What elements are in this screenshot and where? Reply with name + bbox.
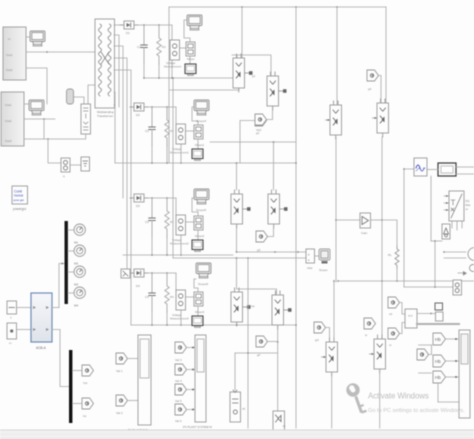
voltage measurement VM4 (176, 290, 186, 310)
svg-text:g2: g2 (256, 131, 260, 135)
wire SwA top from row2 (237, 142, 274, 190)
svg-text:D1: D1 (126, 31, 130, 35)
svg-text:nb: nb (389, 312, 393, 316)
svg-text:W1: W1 (74, 241, 79, 245)
svg-text:R4: R4 (170, 295, 174, 299)
wire row2 bottom rail (115, 162, 296, 164)
wire const to subsystem (17, 307, 32, 309)
PI controller block (230, 392, 241, 422)
svg-text:ACB-A: ACB-A (36, 346, 47, 350)
wire source B1 to Scope1 (26, 36, 30, 38)
wire B2 to Scope2 (24, 103, 29, 105)
thick wire to scope panel (417, 323, 459, 325)
from tag S2 gate (255, 114, 267, 125)
svg-text:powergui: powergui (13, 207, 26, 211)
wire tag to S4 top (379, 76, 382, 104)
svg-text:Gain: Gain (361, 231, 368, 235)
goto small dark block (435, 303, 443, 321)
wire transformer left lower port to RLC branch (88, 85, 95, 104)
svg-text:Val 4: Val 4 (175, 379, 182, 383)
hex tag HB2 (433, 355, 446, 367)
universal bridge U1 (449, 191, 464, 221)
scope Scope2 (29, 100, 44, 115)
wire row2 mid rail (210, 141, 296, 143)
wires tags to scope panel 2 (187, 348, 196, 410)
block ground G1 (81, 157, 90, 171)
wire S1 S2 top link (232, 55, 271, 76)
wire mean2 to scope (192, 107, 198, 125)
step block K3 (7, 323, 17, 339)
transformer T1 (95, 19, 115, 108)
wire row4 top rail (148, 272, 176, 274)
hex tag HB3 (433, 371, 446, 383)
switch SwA (231, 190, 251, 228)
svg-text:PV PLANT SYSTEM M: PV PLANT SYSTEM M (183, 425, 213, 429)
gauge W3 (74, 266, 85, 277)
wire bus tap to lower chopper pair (237, 258, 277, 295)
bridge bottom pins (452, 221, 462, 230)
diode D3 (130, 194, 148, 202)
wire tag E down to switch F (268, 341, 278, 343)
goto tag It (82, 398, 94, 409)
wire row3 branches bottom (152, 198, 176, 255)
resistor R3 (165, 198, 169, 237)
svg-text:gG: gG (315, 338, 320, 342)
gauge W4 (74, 287, 85, 298)
wire row1 top rail (138, 24, 172, 26)
from tag P3 (364, 318, 376, 329)
wires tags to relational (400, 303, 406, 334)
svg-text:Add: Add (307, 266, 313, 270)
wire SwC bottom to rail (236, 322, 238, 325)
wire loop bottom right (438, 401, 459, 403)
display Display1 (185, 64, 196, 76)
breaker B4 (121, 269, 130, 278)
wire PWM to saturation (427, 169, 438, 171)
svg-text:Activate Windows: Activate Windows (368, 392, 429, 401)
svg-text:RL: RL (388, 253, 392, 257)
wire loop left of PWM (430, 176, 432, 241)
from tag H (314, 322, 326, 333)
svg-text:Out1: Out1 (6, 53, 13, 57)
from tag V2 (116, 395, 128, 406)
mean block M2 (194, 125, 203, 139)
wire transformer port stubs and vertical bundle (114, 24, 124, 26)
svg-text:Mean2: Mean2 (195, 234, 205, 238)
svg-text:Mean3: Mean3 (195, 310, 205, 314)
scope Scope5 (194, 189, 209, 204)
resistor R1 (157, 25, 161, 64)
svg-text:D3: D3 (136, 204, 140, 208)
wire into PWM (404, 169, 414, 287)
svg-text:D2: D2 (136, 113, 140, 117)
goto tag Vt (82, 365, 94, 376)
svg-text:Out3: Out3 (5, 139, 12, 143)
wire top rail (169, 6, 386, 8)
switch SwG (322, 338, 338, 376)
svg-text:Val 3: Val 3 (175, 358, 182, 362)
wire tag H to switch G (326, 328, 330, 343)
wire bus down to switch G (333, 281, 335, 338)
series RLC branch block (81, 104, 91, 134)
wire down to measure pair (48, 139, 61, 163)
wire tag to SwB bottom (268, 228, 274, 237)
wires right cluster (431, 240, 442, 242)
voltage measurement VM2 (176, 124, 186, 144)
wire VM4 to mean4 (186, 296, 195, 298)
from tag set 2 col (175, 342, 187, 353)
svg-text:nr: nr (389, 343, 392, 347)
wire RLC bottom to rail (85, 134, 87, 139)
from tag S4 gate (367, 70, 379, 81)
capacitor C1 (141, 25, 147, 63)
wire subsystem out2 to demux2 (52, 330, 69, 387)
svg-text:C1: C1 (137, 45, 141, 49)
from tag V1 (116, 353, 128, 364)
motor machine circle (468, 248, 474, 261)
resistor R2 (165, 107, 169, 146)
wire mid rail y252 (237, 224, 307, 252)
mean block M4 (194, 292, 203, 306)
wire tag V1 to scope panel (128, 358, 139, 360)
wire saturation outputs right (456, 167, 474, 174)
wire meas to left (404, 286, 453, 288)
svg-text:Scope6: Scope6 (198, 282, 209, 286)
switch SwD (272, 291, 292, 329)
svg-text:Transformer: Transformer (97, 114, 113, 118)
wire long rail y281 (338, 280, 474, 282)
wire tag to S2 bottom (267, 108, 273, 120)
sum block Add1 (306, 249, 315, 263)
wire mean4 to display4 (197, 307, 199, 316)
switch S1 (233, 54, 253, 92)
gain block K1 (336, 219, 360, 221)
demux bar Demux2 (69, 350, 72, 423)
scope Scope4 (194, 100, 209, 115)
bus pill block (67, 89, 74, 104)
voltage measurement VM1 (170, 40, 180, 60)
demux bar Demux1 (65, 221, 68, 304)
switch S2 (267, 72, 287, 110)
scope panel S1 tall (138, 335, 151, 425)
resistor R4 (165, 273, 169, 312)
mean block M3 (194, 216, 203, 230)
wire VM3 to mean3 (186, 221, 195, 223)
scope Scope6 (196, 263, 211, 278)
svg-text:R2: R2 (170, 129, 174, 133)
svg-text:Mean: Mean (187, 57, 195, 61)
svg-text:C4: C4 (145, 295, 149, 299)
capacitor C2 (149, 107, 155, 145)
constant block K2 (7, 301, 17, 314)
switch SwI (370, 335, 386, 373)
svg-text:Out1: Out1 (5, 103, 12, 107)
wire step to subsystem (17, 329, 32, 331)
wire to ground block (70, 164, 81, 166)
svg-text:Ist: Ist (83, 414, 86, 418)
scope panel S2 tall (195, 335, 206, 422)
watermark key icon (348, 385, 366, 412)
svg-text:pow gui: pow gui (14, 198, 25, 202)
wire row3 bottom rail (123, 254, 233, 256)
wire vertical x386 top (385, 7, 387, 103)
svg-text:Mean1: Mean1 (195, 143, 205, 147)
svg-text:Measurement: Measurement (164, 65, 181, 69)
wire verticals x235 x248 (234, 353, 236, 390)
svg-text:Measurement3: Measurement3 (170, 317, 189, 321)
scope Scope1 (30, 31, 45, 46)
wire source B1 port3 down (26, 68, 47, 104)
wire S4 bottom long vertical x382 (381, 137, 383, 339)
diode D2 (130, 103, 148, 111)
wire h y353 (235, 352, 277, 354)
svg-text:Val 6: Val 6 (175, 419, 182, 423)
svg-text:R1: R1 (162, 45, 166, 49)
svg-text:R3: R3 (170, 220, 174, 224)
wire y273 with arrow (458, 272, 464, 274)
gauge W1 (74, 224, 85, 235)
svg-text:Vst: Vst (83, 381, 88, 385)
mean block M1 (186, 42, 195, 56)
svg-text:g4: g4 (368, 87, 372, 91)
capacitor C4 (149, 273, 155, 311)
svg-text:Go to PC settings to activate: Go to PC settings to activate Windows. (368, 408, 465, 414)
wire mean2 to display2 (197, 140, 199, 149)
source subsystem B1 (3, 27, 26, 80)
source subsystem B2 (1, 92, 24, 146)
subsystem ACB blue (31, 293, 52, 342)
switch SwF (273, 411, 286, 430)
bridge left pins (444, 196, 449, 210)
wire mean to scope1 (184, 20, 190, 42)
wire row4 branches bottom (152, 273, 176, 325)
svg-text:Out2: Out2 (6, 68, 13, 72)
svg-text:W2: W2 (74, 262, 79, 266)
relational operator block (405, 309, 417, 328)
wire pill to RLC branch (74, 97, 85, 104)
wire gain to x382 (371, 219, 383, 221)
svg-text:g1: g1 (252, 74, 256, 78)
bracket tag J (419, 345, 432, 373)
display Display2 (192, 149, 203, 161)
wire subsystem out1 to riser (52, 307, 59, 309)
wire source B1 to transformer (26, 51, 95, 53)
wire row2 top rail (148, 106, 176, 108)
wire mean3 to display3 (197, 231, 199, 240)
block current measure q (61, 158, 70, 172)
switch S3 (326, 101, 342, 139)
bottom scrollbar strip (0, 430, 474, 439)
svg-text:<=: <= (408, 313, 413, 318)
from tag P2 (388, 328, 400, 339)
svg-text:g3: g3 (257, 248, 261, 252)
switch SwB (268, 190, 288, 228)
resistor RL load (395, 246, 399, 268)
DC voltage source triangle (442, 224, 450, 239)
wire B2 port3 (24, 138, 85, 140)
wire mean3 to scope (192, 198, 198, 216)
wire B2 port2 (24, 118, 55, 120)
svg-text:Val 1: Val 1 (116, 369, 123, 373)
wire mean to display1 (189, 57, 191, 64)
wire row4 bottom rail (131, 324, 296, 326)
wire row3 top rail (148, 197, 176, 199)
svg-text:Val 2: Val 2 (116, 411, 123, 415)
wire mid rail y258 (173, 257, 306, 259)
switch SwC (231, 288, 251, 326)
svg-text:gF: gF (257, 353, 261, 357)
scope Scope7 (319, 249, 330, 264)
svg-text:Scope5: Scope5 (196, 208, 207, 212)
wire tag V2 to scope panel (128, 400, 139, 402)
wire S1 bottom to left rail (170, 89, 239, 90)
PWM generator block (414, 158, 427, 176)
svg-text:C3: C3 (145, 220, 149, 224)
small machine circle2 (470, 265, 474, 272)
switch S4 (373, 99, 389, 137)
gauge W2 (74, 245, 85, 256)
svg-text:Val 5: Val 5 (175, 399, 182, 403)
wire mean4 to scope (194, 279, 198, 292)
wire VM1 to mean (180, 47, 187, 49)
scope Scope3 (187, 15, 202, 30)
voltage measurement VM3 (176, 215, 186, 235)
from tag E (256, 336, 268, 347)
diode D1 (120, 21, 138, 29)
svg-text:T: T (10, 316, 12, 320)
wire vertical x173 (172, 78, 174, 258)
wire row1 right branch (171, 25, 173, 78)
from tag P1 (388, 297, 400, 308)
wire goto tag row2 (240, 121, 255, 163)
svg-text:C2: C2 (145, 129, 149, 133)
wire vertical rail x296 (295, 7, 297, 428)
wire relational out (417, 313, 435, 315)
svg-text:or: or (466, 207, 469, 211)
svg-text:W4: W4 (74, 304, 79, 308)
wire SwI bottom down (379, 369, 381, 428)
hex tag HB1 (433, 333, 446, 345)
wire sum to scope7 (315, 255, 320, 257)
svg-text:D4: D4 (136, 284, 140, 288)
wire S3 top from rail (336, 7, 338, 105)
wire SwG bottom down (331, 372, 333, 428)
svg-text:Scope: Scope (319, 268, 328, 272)
scope panel right tall (459, 330, 470, 418)
wire vertical x169 (168, 7, 170, 163)
wire SwD bottom down to SwF (277, 325, 279, 411)
svg-text:Chop: Chop (248, 304, 255, 308)
wire VM2 to mean2 (186, 130, 195, 132)
svg-text:nuous: nuous (14, 194, 24, 198)
display Display4 (192, 316, 203, 328)
svg-text:In: In (8, 37, 11, 41)
wire into demux1 (59, 264, 64, 308)
display Display3 (192, 240, 203, 252)
current measurement block (453, 280, 462, 295)
wire x336 S3 chain (335, 137, 337, 220)
saturation block dark (438, 163, 456, 176)
from tag SwB gate (256, 231, 268, 242)
svg-text:Out2: Out2 (5, 119, 12, 123)
wire row1 bottom rail (144, 63, 233, 78)
svg-text:Scope4: Scope4 (196, 119, 207, 123)
powergui block (12, 186, 28, 204)
diode D4 (130, 269, 148, 277)
capacitor C3 (149, 198, 155, 236)
goto tag row2 (255, 115, 267, 126)
svg-text:PI: PI (243, 407, 246, 411)
wire row2 branches to bottom rail (152, 107, 176, 163)
svg-text:W3: W3 (74, 283, 79, 287)
